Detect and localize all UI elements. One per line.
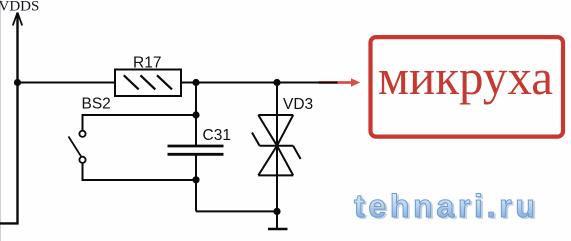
wire: node B down through VD3: [276, 83, 278, 212]
junction: BS2 bottom tap: [192, 176, 199, 183]
ground: [268, 211, 288, 229]
switch BS2: [69, 131, 86, 163]
junction: ground node: [273, 208, 280, 215]
wire: main horizontal, VDDS to R17: [18, 82, 116, 84]
junction: node A (C31 branch): [192, 79, 199, 86]
wire: node A down to C31: [195, 83, 197, 147]
capacitor C31: [168, 146, 224, 154]
wire: R17 to node A: [181, 82, 196, 84]
svg-text:tehnari.ru: tehnari.ru: [354, 188, 539, 224]
red arrow to microchip: [319, 78, 361, 87]
svg-text:R17: R17: [133, 55, 161, 72]
watermark tehnari.ru: [354, 188, 541, 226]
resistor R17: [115, 70, 181, 97]
wire: bottom horizontal to ground node: [196, 210, 277, 212]
wire: BS2 top connection: [83, 115, 197, 131]
wire: bottom-left horizontal to edge: [0, 222, 19, 224]
svg-text:C31: C31: [203, 127, 231, 144]
junction: VDDS rail / main wire: [14, 79, 21, 86]
svg-text:BS2: BS2: [82, 96, 111, 113]
wire: node A to node B: [196, 82, 277, 84]
svg-text:микруха: микруха: [378, 49, 553, 105]
red box (microchip callout): [371, 37, 564, 137]
junction: BS2 top tap: [192, 111, 199, 118]
wire: BS2 bottom connection: [83, 163, 197, 180]
wire: node B to output: [277, 82, 338, 84]
power arrow VDDS: [13, 13, 22, 26]
wire: C31 bottom down: [195, 154, 197, 211]
junction: node B (VD3 branch): [273, 79, 280, 86]
wire: VDDS vertical rail: [16, 13, 18, 223]
diode VD3 (bidirectional suppressor): [252, 115, 301, 175]
svg-text:VD3: VD3: [283, 96, 313, 113]
svg-text:VDDS: VDDS: [0, 0, 39, 15]
